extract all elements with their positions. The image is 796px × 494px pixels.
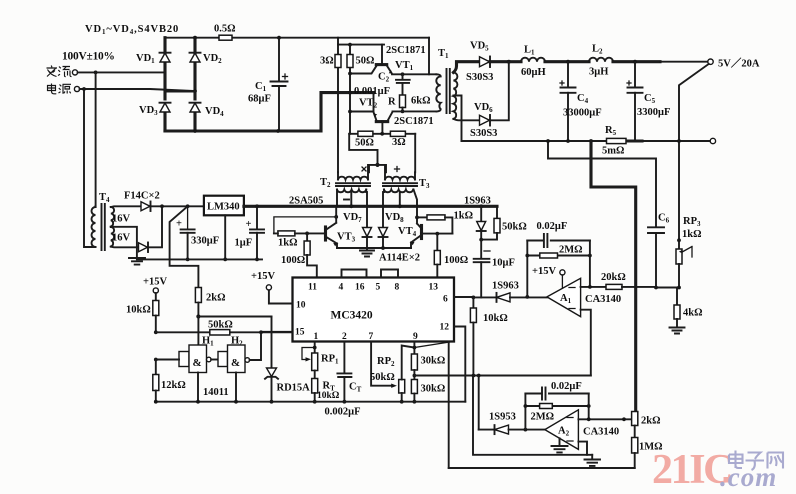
- transistor VT4: [420, 226, 423, 239]
- wire A2 plus input: [578, 442, 587, 455]
- svg-text:100Ω: 100Ω: [281, 255, 305, 266]
- svg-text:9: 9: [413, 332, 418, 342]
- resistor 12k: [155, 360, 157, 375]
- wire pin6: [454, 296, 473, 298]
- svg-text:68μF: 68μF: [248, 94, 271, 105]
- wire A1 inverting input / 20k: [581, 286, 606, 288]
- svg-text:CA3140: CA3140: [585, 294, 621, 305]
- wire A2 feedback left vertical: [524, 394, 526, 430]
- potentiometer RP1: [302, 348, 315, 360]
- svg-text:RD15A: RD15A: [277, 383, 311, 394]
- resistor 50 ohm vertical: [349, 45, 351, 134]
- svg-text:2kΩ: 2kΩ: [641, 416, 661, 427]
- node 10k bottom: [154, 330, 158, 334]
- wire emitter row: [337, 247, 411, 249]
- node rail RP3: [677, 139, 681, 143]
- zener RD15A: [271, 317, 273, 369]
- svg-text:50kΩ: 50kΩ: [208, 320, 233, 331]
- resistor 100 ohm (pin13): [436, 234, 438, 251]
- capacitor 10uF: [480, 240, 482, 259]
- node VT4 collector: [415, 216, 419, 220]
- diode 1S963 vertical: [480, 206, 482, 221]
- resistor 10k (A1): [472, 297, 474, 308]
- transistor VT1: [350, 65, 377, 74]
- svg-text:100Ω: 100Ω: [444, 255, 468, 266]
- svg-text:50Ω: 50Ω: [356, 56, 375, 67]
- wire H2 gnd: [235, 373, 237, 402]
- diode F14C-2: [139, 243, 148, 252]
- svg-text:0.02μF: 0.02μF: [537, 221, 568, 232]
- svg-text:30kΩ: 30kΩ: [421, 356, 446, 367]
- wire drop to 1S953: [478, 376, 480, 430]
- resistor 50k: [496, 207, 498, 219]
- transformer T3 primary winding: [385, 177, 415, 180]
- resistor 2k: [195, 288, 201, 303]
- wire T4 feed left: [95, 72, 97, 207]
- polarity mark T2: [362, 167, 366, 171]
- ground A2 right: [591, 455, 593, 459]
- resistor 20k: [606, 284, 622, 289]
- polarity minus T2: [344, 199, 349, 201]
- diode VD5 S30S3: [480, 57, 490, 67]
- resistor 0.5 ohm: [219, 35, 232, 40]
- node rail sense: [589, 139, 593, 143]
- diode VD7: [366, 192, 368, 227]
- transformer T4 primary winding: [92, 207, 96, 247]
- resistor R5 5mohm: [607, 138, 627, 143]
- wire sec bottom to D2: [111, 246, 139, 249]
- svg-text:10kΩ: 10kΩ: [317, 391, 340, 401]
- svg-text:+: +: [246, 219, 252, 230]
- wire divider net y375: [414, 375, 590, 377]
- resistor RT 10k: [314, 371, 316, 379]
- wire rail drop to T1: [428, 38, 430, 75]
- svg-text:7: 7: [369, 332, 374, 342]
- svg-text:6: 6: [443, 295, 448, 305]
- svg-text:1S953: 1S953: [489, 412, 516, 423]
- wire T1 sec bottom to VD6: [453, 119, 479, 120]
- resistor 100 ohm (pin11): [306, 233, 308, 241]
- wire A2 feedback right vertical: [588, 394, 590, 420]
- terminal AC2: [74, 86, 79, 91]
- transformer T1 secondary winding: [453, 73, 457, 119]
- transistor VT2: [373, 93, 375, 112]
- wire stage rail y44.6: [338, 38, 384, 45]
- svg-text:S30S3: S30S3: [466, 72, 493, 83]
- svg-text:10: 10: [296, 301, 306, 311]
- node 330uF tap: [186, 204, 190, 208]
- svg-text:3μH: 3μH: [589, 67, 608, 78]
- ground A2 vminus: [559, 438, 561, 445]
- node AC2-T4: [82, 87, 86, 91]
- terminal AC1: [72, 70, 77, 75]
- wire H1 out to H2: [211, 359, 218, 361]
- diode VD8: [382, 192, 384, 227]
- capacitor 0.02uF (A1): [527, 240, 590, 242]
- svg-text:+15V: +15V: [251, 271, 275, 282]
- capacitor 330uF: [187, 206, 189, 229]
- svg-text:60μH: 60μH: [521, 67, 546, 78]
- transformer T4 core: [102, 204, 105, 250]
- wire bottom rail: [165, 93, 374, 131]
- svg-text:0.02μF: 0.02μF: [551, 381, 582, 392]
- svg-text:1kΩ: 1kΩ: [278, 238, 298, 249]
- node VT3 base: [305, 232, 309, 236]
- op-amp A2 CA3140: [545, 410, 579, 450]
- svg-text:10kΩ: 10kΩ: [483, 313, 508, 324]
- node 2k bottom: [196, 314, 200, 318]
- svg-text:10μF: 10μF: [492, 258, 515, 269]
- svg-text:&: &: [193, 357, 202, 369]
- potentiometer RP2 50k: [399, 380, 405, 394]
- svg-text:1S963: 1S963: [464, 196, 491, 207]
- svg-text:14011: 14011: [203, 387, 229, 398]
- svg-text:2SC1871: 2SC1871: [386, 45, 426, 56]
- resistor 50 ohm horizontal: [358, 131, 373, 136]
- jumper pins 5-8: [381, 270, 398, 278]
- wire A1 plus input elbow: [581, 310, 591, 376]
- svg-text:LM340: LM340: [207, 202, 240, 213]
- svg-text:2SA505: 2SA505: [289, 196, 323, 207]
- diode VD2: [190, 53, 200, 62]
- ground T4: [129, 258, 145, 265]
- IC MC3420: [293, 278, 455, 342]
- capacitor 1uF: [256, 206, 258, 229]
- transformer T2 core: [336, 183, 370, 186]
- svg-text:1μF: 1μF: [235, 238, 253, 249]
- node rail C4: [566, 139, 570, 143]
- potentiometer RP3 1k: [678, 141, 680, 249]
- svg-text:33000μF: 33000μF: [563, 108, 602, 119]
- node T3 tap on rail: [398, 204, 402, 208]
- wire drive row: [349, 133, 415, 135]
- svg-text:50kΩ: 50kΩ: [370, 372, 395, 383]
- diode F14C-1: [141, 202, 150, 211]
- wire H2 out feedback: [250, 332, 261, 360]
- resistor 30k upper: [411, 354, 417, 370]
- wire 3ohm right down to T3: [414, 134, 416, 173]
- diode VD4: [190, 103, 200, 112]
- wire pin10: [269, 290, 293, 304]
- resistor 1k (VT3 base): [278, 231, 295, 236]
- wire pin15: [261, 331, 293, 333]
- terminal +5V output: [708, 59, 713, 64]
- wire pin1: [314, 342, 316, 354]
- svg-text:5: 5: [376, 283, 381, 293]
- wire AC2 to bridge mid: [80, 89, 195, 91]
- wire 50ohm left elbow to center tap: [349, 134, 377, 165]
- wire 2k down to H1: [197, 317, 199, 346]
- svg-text:F14C×2: F14C×2: [124, 191, 160, 202]
- resistor R 6k: [400, 95, 406, 108]
- wire bridge mid left link: [165, 91, 195, 93]
- ground 4k: [670, 328, 685, 334]
- svg-text:2MΩ: 2MΩ: [559, 245, 583, 256]
- node T2T3 center tap: [375, 163, 379, 167]
- svg-text:5mΩ: 5mΩ: [602, 146, 624, 157]
- resistor 30k lower: [411, 380, 417, 394]
- node VD5/VD6 join: [507, 60, 511, 64]
- node 1S963 rail: [479, 204, 483, 208]
- svg-text:4kΩ: 4kΩ: [683, 308, 703, 319]
- node top rail at C1: [277, 36, 281, 40]
- diode VD3: [160, 103, 170, 112]
- svg-text:3Ω: 3Ω: [320, 56, 334, 67]
- capacitor C1 68uF: [278, 38, 280, 81]
- wire H1 gnd: [197, 373, 199, 402]
- svg-text:2: 2: [342, 332, 347, 342]
- diode VD1: [160, 53, 170, 62]
- wire pin12: [454, 327, 465, 402]
- wire sec center tap to ground: [111, 227, 137, 258]
- svg-text:30kΩ: 30kΩ: [421, 384, 446, 395]
- transistor VT3 2SA505: [324, 227, 327, 240]
- diode VD6 S30S3: [480, 115, 490, 125]
- op-amp A1 CA3140: [547, 278, 581, 316]
- node H2 feedback: [259, 330, 263, 334]
- svg-text:16: 16: [355, 283, 365, 293]
- watermark 电子网: [729, 451, 783, 471]
- wire T1 sec center tap: [453, 96, 461, 142]
- svg-text:.com: .com: [720, 462, 777, 492]
- resistor 4k: [676, 288, 678, 306]
- wire A1 feedback right vertical: [589, 241, 591, 287]
- wire T1 sec top to VD5: [453, 62, 479, 73]
- wire AC1 to bridge: [78, 71, 165, 73]
- node bottom at VD4: [193, 129, 197, 133]
- svg-text:1S963: 1S963: [492, 281, 519, 292]
- wire A1 feedback left vertical: [526, 241, 528, 297]
- resistor 2k sense: [632, 412, 638, 426]
- svg-text:5V／20A: 5V／20A: [718, 57, 760, 70]
- capacitor 0.02uF (A2): [525, 393, 588, 395]
- capacitor C6: [648, 227, 664, 233]
- wire thick drop to 2k: [170, 206, 199, 287]
- resistor 50k h: [210, 330, 230, 335]
- node y92 junction: [348, 91, 352, 95]
- wire L2 to output: [613, 60, 660, 63]
- node A2 fb left: [524, 428, 528, 432]
- resistor 2M (A1): [527, 255, 590, 257]
- svg-text:16V: 16V: [112, 233, 131, 244]
- resistor 2M (A2): [525, 405, 588, 407]
- wire top rail: [165, 37, 429, 39]
- svg-text:+: +: [176, 219, 182, 230]
- wire LM340 output rail: [244, 205, 497, 208]
- transformer T1 primary winding: [436, 74, 440, 111]
- regulator LM340: [204, 196, 244, 216]
- resistor 3 ohm vertical: [337, 45, 339, 173]
- wire LM340 gnd pin: [224, 215, 226, 259]
- svg-text:50kΩ: 50kΩ: [502, 222, 527, 233]
- svg-text:3Ω: 3Ω: [392, 137, 406, 148]
- svg-text:+15V: +15V: [532, 266, 556, 277]
- svg-text:330μF: 330μF: [191, 236, 219, 247]
- node T2 tap on rail: [349, 204, 353, 208]
- resistor 3 ohm horizontal: [390, 131, 405, 136]
- node 100ohm pin13: [435, 232, 439, 236]
- svg-text:2MΩ: 2MΩ: [531, 412, 555, 423]
- node stage rail 50ohm: [348, 43, 352, 47]
- svg-text:S30S3: S30S3: [470, 128, 497, 139]
- wire 50k row: [156, 331, 293, 333]
- node C2 top: [401, 72, 405, 76]
- terminal +15V left: [153, 288, 158, 293]
- inductor L1 60uH: [509, 60, 521, 63]
- svg-text:2kΩ: 2kΩ: [206, 293, 226, 304]
- wire bottom long: [449, 467, 635, 469]
- node AC1-T4: [94, 71, 98, 75]
- svg-text:11: 11: [308, 283, 317, 293]
- diode 1S963 (A1 output): [496, 293, 498, 302]
- svg-text:3300μF: 3300μF: [637, 107, 670, 118]
- transformer T4 secondary 16V upper: [111, 207, 114, 227]
- node rail C5: [628, 139, 642, 142]
- terminal +15V mid: [266, 285, 271, 290]
- node A1 fb left: [525, 295, 529, 299]
- svg-text:20kΩ: 20kΩ: [601, 272, 626, 283]
- wire C6 jog: [548, 141, 656, 227]
- wire T4 feed right: [84, 89, 92, 247]
- wire pin2 / capacitor CT: [343, 342, 345, 374]
- wire pin6 node to diode: [473, 296, 496, 298]
- capacitor C5 3300uF: [634, 62, 636, 87]
- wire bridge left vertical: [163, 38, 166, 131]
- inductor L2 3uH: [589, 58, 613, 62]
- svg-text:16V: 16V: [112, 214, 131, 225]
- svg-text:4: 4: [339, 283, 344, 293]
- wire A2 inverting input row: [578, 418, 631, 420]
- svg-text:A114E×2: A114E×2: [379, 253, 420, 264]
- resistor 1M: [632, 438, 638, 454]
- svg-text:0.002μF: 0.002μF: [325, 407, 361, 418]
- svg-text:12: 12: [440, 323, 450, 333]
- svg-text:0.001μF: 0.001μF: [354, 86, 390, 97]
- svg-text:100V±10%: 100V±10%: [62, 51, 115, 63]
- label 电源 (power): [48, 84, 72, 94]
- svg-text:+15V: +15V: [143, 277, 167, 288]
- capacitor C4 33000uF: [567, 62, 569, 87]
- node VT1 base: [348, 72, 352, 76]
- wire box corner drop: [448, 342, 450, 469]
- svg-text:2SC1871: 2SC1871: [394, 116, 434, 127]
- svg-text:10kΩ: 10kΩ: [126, 305, 151, 316]
- polarity mark T3: [395, 167, 400, 172]
- wire lower rail: [462, 140, 711, 142]
- node bridge mid right: [193, 89, 197, 93]
- transformer T2 secondary winding: [337, 190, 366, 193]
- wire sec top to D1: [111, 205, 141, 208]
- wire H1 input: [156, 359, 179, 361]
- svg-text:1kΩ: 1kΩ: [454, 211, 474, 222]
- svg-text:0.5Ω: 0.5Ω: [214, 24, 236, 35]
- svg-text:8: 8: [395, 283, 400, 293]
- resistor 1k (VT4): [417, 216, 427, 218]
- terminal 0V output: [710, 138, 715, 143]
- svg-text:13: 13: [429, 283, 439, 293]
- wire 1S953 row: [479, 429, 495, 431]
- wire feedback row y287: [656, 287, 679, 289]
- transformer T1 core: [447, 69, 450, 113]
- svg-text:CA3140: CA3140: [583, 427, 619, 438]
- wire gnd rail: [137, 258, 262, 260]
- node pin6 junction: [472, 296, 476, 300]
- transformer T3 core: [383, 183, 417, 186]
- transformer T4 secondary 16V lower: [111, 227, 114, 247]
- node D1 output: [160, 204, 164, 208]
- svg-text:12kΩ: 12kΩ: [161, 380, 186, 391]
- svg-text:50Ω: 50Ω: [355, 138, 374, 149]
- node top rail at VD2: [193, 36, 197, 40]
- wire output slant to RP3 column: [679, 64, 709, 141]
- capacitor C2 0.001uF: [396, 74, 410, 95]
- wire sense branch to 2k: [591, 141, 636, 412]
- svg-text:MC3420: MC3420: [331, 310, 373, 322]
- svg-text:6kΩ: 6kΩ: [411, 96, 431, 107]
- svg-text:15: 15: [295, 328, 305, 338]
- svg-text:&: &: [231, 357, 240, 369]
- wire 2k to RD15A: [198, 316, 271, 318]
- transformer T3 secondary winding: [384, 190, 413, 193]
- wire pin9: [413, 342, 415, 355]
- svg-text:R: R: [388, 97, 396, 108]
- transistor VT3 collector loop: [335, 206, 337, 217]
- terminal +15V A1: [560, 270, 565, 275]
- diode 1S953: [494, 425, 496, 434]
- jumper pins 4-16: [342, 270, 367, 278]
- resistor 10k left: [155, 293, 157, 301]
- transformer T2 primary winding: [338, 177, 368, 180]
- wire L1 to L2: [545, 60, 589, 63]
- wire bridge right vertical: [193, 38, 196, 131]
- ground VD7: [360, 251, 374, 257]
- svg-text:1kΩ: 1kΩ: [682, 229, 702, 240]
- wire 10k line down to A2 plus: [473, 376, 592, 455]
- wire pin7 to RP2 wiper: [371, 342, 391, 386]
- svg-text:1: 1: [314, 332, 319, 342]
- wire bottom rail: [156, 401, 466, 403]
- label 交流 (AC): [47, 66, 72, 77]
